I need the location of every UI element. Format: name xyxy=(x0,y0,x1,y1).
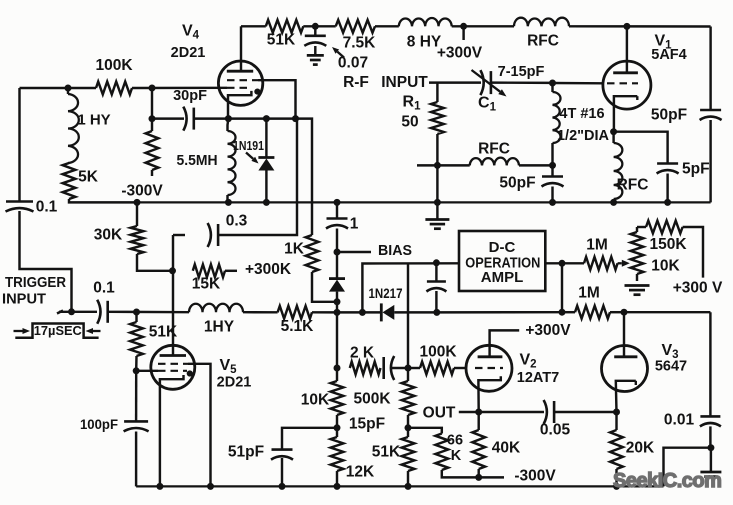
tube V5 grid1 lead right xyxy=(188,364,211,487)
capacitor 100pF top lead xyxy=(135,371,138,422)
svg-text:INPUT: INPUT xyxy=(381,74,428,91)
wire OUT line xyxy=(459,411,544,413)
capacitor (DC amp input) xyxy=(427,280,446,283)
wire to 1M bottom xyxy=(562,311,575,313)
svg-text:10K: 10K xyxy=(301,392,330,409)
svg-text:-300V: -300V xyxy=(121,183,163,200)
junction -300V node (40K/66K) xyxy=(475,474,482,481)
ground below 0.07 xyxy=(307,54,324,57)
junction 100K left node xyxy=(405,365,412,372)
svg-text:5pF: 5pF xyxy=(682,161,710,178)
junction 5.5MH bottom on bus xyxy=(225,199,232,206)
svg-text:50pF: 50pF xyxy=(499,175,535,192)
svg-text:1K: 1K xyxy=(284,241,305,258)
capacitor 0.1 (left feedback) xyxy=(6,200,33,203)
wire resistor bottom stub -300V xyxy=(151,170,153,176)
capacitor 0.3 xyxy=(217,224,220,246)
wire -300V stub xyxy=(479,476,504,478)
wire top-left feedback loop left side xyxy=(18,88,20,201)
tube V3 plate bar xyxy=(614,355,637,358)
inductor 5.5MH xyxy=(228,131,236,195)
wire trigger input line 2 xyxy=(59,311,97,313)
wire pot bottom lead xyxy=(636,274,638,281)
tube V2 plate lead to +300V xyxy=(490,330,520,356)
wire grid node to V1 grid xyxy=(553,82,604,85)
wire 5K bottom to -300V bus xyxy=(69,199,137,202)
capacitor 0.01 xyxy=(700,415,720,418)
junction DC amp input cap bottom xyxy=(433,309,440,316)
svg-text:0.1: 0.1 xyxy=(93,280,115,297)
wire 1M to V3 grid node xyxy=(610,311,624,313)
wire 1K bottom elbow xyxy=(312,272,337,302)
svg-text:7.5K: 7.5K xyxy=(343,35,377,52)
wire 50pF to RF ground bus xyxy=(709,120,711,202)
tube V2 12AT7 envelope xyxy=(466,345,512,391)
wire 51K to grid junction xyxy=(135,356,138,371)
svg-text:5AF4: 5AF4 xyxy=(651,47,686,63)
resistor 30K xyxy=(131,226,144,254)
svg-text:AMPL: AMPL xyxy=(481,269,524,286)
svg-text:100K: 100K xyxy=(419,344,457,361)
wire V5 grid node to 51K xyxy=(135,312,137,322)
svg-text:5.1K: 5.1K xyxy=(281,318,315,335)
svg-text:100K: 100K xyxy=(95,57,133,74)
resistor 2K xyxy=(350,362,381,375)
capacitor DC amp input bottom lead xyxy=(435,291,437,312)
junction DC amp output node xyxy=(559,260,566,267)
wire bias node to 2K junction xyxy=(336,312,338,368)
tube V3 cathode bar and drop xyxy=(616,381,636,412)
junction 51pF bottom on bus xyxy=(279,483,286,490)
junction R1 / RFC row xyxy=(434,162,441,169)
tube V5 plate bar xyxy=(160,354,186,357)
tube V1 plate bar xyxy=(613,71,638,74)
tube V3 5647 envelope xyxy=(602,346,648,392)
wire cap to 100K node xyxy=(391,367,408,369)
junction 1N191 top row xyxy=(263,115,270,122)
wire grid bus top-left xyxy=(20,87,97,89)
junction 0.01 bottom node xyxy=(707,444,714,451)
wire OUT node to 40K xyxy=(477,412,479,430)
svg-text:1 HY: 1 HY xyxy=(77,112,110,129)
inductor 4T bottom lead xyxy=(551,143,553,165)
svg-text:500K: 500K xyxy=(353,391,391,408)
svg-text:5647: 5647 xyxy=(655,359,687,375)
svg-text:0.05: 0.05 xyxy=(540,422,571,439)
svg-text:51K: 51K xyxy=(372,444,401,461)
arrow left pulse width xyxy=(14,330,23,332)
wire 0.3 cap right to grid column xyxy=(218,119,297,235)
wire 1N217 bypass loop xyxy=(362,263,459,312)
capacitor 5pF xyxy=(657,162,678,165)
junction trigger corner xyxy=(68,308,75,315)
wire V3 cathode node to 20K xyxy=(615,412,617,430)
svg-text:-300V: -300V xyxy=(514,468,556,485)
arrow pointing to 1N191 xyxy=(246,153,253,159)
ground below pot xyxy=(625,284,650,287)
svg-text:50pF: 50pF xyxy=(651,107,687,124)
wire 66K bottom to -300V line xyxy=(442,470,479,477)
wire bias bus to 1M node xyxy=(437,311,562,314)
tube V1 plate lead xyxy=(626,26,628,72)
tube V5 grid1 dashes xyxy=(158,363,188,365)
wire 10K to 15pF node xyxy=(336,415,338,428)
wire R1 top lead xyxy=(436,83,438,102)
wire 15pF node to 66K top xyxy=(408,428,442,434)
wire right edge down to 50pF xyxy=(709,27,711,111)
junction V2 cathode OUT node xyxy=(475,409,482,416)
resistor 5.1K xyxy=(278,306,312,319)
junction V5 grid node xyxy=(133,309,140,316)
svg-text:15K: 15K xyxy=(192,276,221,293)
wire 8HY to RFC xyxy=(452,25,514,27)
inductor 4T #16 coil xyxy=(553,92,561,143)
wire 1 cap to BIAS node xyxy=(336,229,338,279)
junction 2K node xyxy=(334,365,341,372)
junction 1N191 bottom on bus xyxy=(263,199,270,206)
wire 5.1K to bias node xyxy=(312,311,337,314)
tube V5 cathode xyxy=(160,375,184,486)
svg-text:30pF: 30pF xyxy=(173,88,207,104)
svg-text:+300V: +300V xyxy=(437,45,483,62)
wire pot top to 150K xyxy=(637,226,646,228)
wire ground stub bottom right xyxy=(710,448,712,472)
tube V5 gas dot xyxy=(187,370,193,376)
wire 0.05 to V3 cathode node xyxy=(554,411,616,413)
svg-text:1M: 1M xyxy=(578,285,600,302)
inductor 5.5MH top lead xyxy=(226,119,229,131)
svg-text:RFC: RFC xyxy=(527,33,559,50)
svg-text:30K: 30K xyxy=(94,227,123,244)
resistor 51K (V5 grid) xyxy=(130,322,143,356)
svg-text:40K: 40K xyxy=(492,440,521,457)
wire 0.01 node to bottom bus xyxy=(664,448,711,487)
wire 100K to V2 grid xyxy=(454,367,467,369)
capacitor 100pF xyxy=(124,420,148,423)
svg-text:K: K xyxy=(451,448,462,464)
capacitor 50pF top lead xyxy=(551,165,553,176)
wire 12K to bottom bus xyxy=(336,471,338,486)
wire RFC row left stub xyxy=(417,164,437,166)
capacitor DC amp input top lead xyxy=(435,263,437,282)
junction 1M bottom left node xyxy=(559,309,566,316)
capacitor 0.1 (trigger coupling) xyxy=(106,301,109,323)
junction screen row left xyxy=(149,115,156,122)
svg-text:1HY: 1HY xyxy=(204,319,235,336)
junction RF input ground node xyxy=(434,199,441,206)
wire 20K to bottom bus xyxy=(615,469,617,486)
wire V4 screen row xyxy=(151,88,153,119)
svg-text:0.1: 0.1 xyxy=(36,199,58,216)
wire node to 1M xyxy=(562,262,584,264)
wire below 0.1 cap to trigger corner xyxy=(20,211,72,312)
inductor RFC vertical top lead xyxy=(612,132,614,143)
junction 1K elbow node xyxy=(334,298,341,305)
wire DC amp output xyxy=(545,262,562,264)
junction V5 plate / 15K / 30K node xyxy=(169,267,176,274)
capacitor 50pF bottom lead xyxy=(551,187,553,203)
junction RFC vertical bottom xyxy=(610,199,617,206)
inductor 1HY (vertical) xyxy=(68,94,79,163)
wire bias bus to 1N217 xyxy=(337,311,381,313)
wire RFC to V1 plate node xyxy=(569,25,711,28)
svg-text:1N191: 1N191 xyxy=(233,139,264,153)
resistor R1 50 xyxy=(431,102,444,134)
tube V4 cathode xyxy=(228,91,251,119)
wire 2K node to 10K xyxy=(336,368,338,381)
svg-text:D-C: D-C xyxy=(489,239,516,256)
wire bias bus to right edge xyxy=(624,311,710,313)
junction node 1HY top xyxy=(65,85,72,92)
svg-text:66: 66 xyxy=(447,433,463,449)
inductor RFC vertical bottom lead xyxy=(612,199,614,202)
resistor 5K xyxy=(63,163,76,199)
inductor 1HY (horizontal) xyxy=(189,304,243,312)
svg-text:4T #16: 4T #16 xyxy=(559,106,604,122)
junction DC amp input cap top xyxy=(433,259,440,266)
resistor 15K xyxy=(193,264,225,277)
tube V5 2D21 envelope xyxy=(151,345,195,389)
svg-text:+300K: +300K xyxy=(245,261,292,278)
svg-text:17µSEC: 17µSEC xyxy=(34,324,82,338)
svg-text:RFC: RFC xyxy=(617,177,649,194)
wire trigger input line xyxy=(57,311,63,314)
svg-text:51pF: 51pF xyxy=(228,444,264,461)
junction 12K bottom on bus xyxy=(334,483,341,490)
capacitor 5pF bottom lead xyxy=(666,174,668,203)
junction V1 plate node xyxy=(623,23,630,30)
svg-text:20K: 20K xyxy=(626,440,655,457)
wire 1 cap top lead xyxy=(336,202,338,218)
wire 30K bottom elbow to V5 plate node xyxy=(137,254,173,271)
capacitor 51pF top lead to divider xyxy=(282,428,337,450)
svg-text:12AT7: 12AT7 xyxy=(517,370,559,386)
capacitor 0.01 bottom lead xyxy=(709,426,711,447)
wire 500K to node xyxy=(407,415,409,428)
junction 100K right / V4 grid xyxy=(149,85,156,92)
svg-text:1M: 1M xyxy=(586,237,608,254)
resistor 1K xyxy=(306,235,319,272)
capacitor 50pF (middle) xyxy=(542,175,563,178)
svg-text:BIAS: BIAS xyxy=(378,243,412,259)
wire 0.3 coupling line xyxy=(173,234,185,236)
wire ground stub RF xyxy=(436,202,438,219)
capacitor 51pF bottom lead xyxy=(281,458,283,486)
wire -300V horizontal bus xyxy=(137,201,711,203)
wire 100K node to 500K xyxy=(407,368,409,381)
arrow through C1 (variable) xyxy=(472,70,501,92)
resistor 7.5K xyxy=(336,20,375,33)
junction 1N217 loop left xyxy=(359,309,366,316)
wire DC column vertical xyxy=(407,263,409,368)
tube V1 cathode bar and drop xyxy=(614,96,637,132)
wire BIAS stub xyxy=(337,251,371,253)
junction cathode V4 row xyxy=(225,115,232,122)
wire 150K to +300V xyxy=(683,227,703,278)
resistor 150K xyxy=(646,221,683,234)
resistor 51K (lower) xyxy=(402,437,415,471)
wire +300V stub xyxy=(462,26,464,40)
svg-text:51K: 51K xyxy=(149,324,178,341)
arrow right pulse width xyxy=(93,330,101,332)
capacitor 0.07 to ground stub xyxy=(314,46,316,55)
tube V4 plate lead xyxy=(240,26,242,71)
tube V4 plate bar xyxy=(227,70,253,73)
inductor RFC (middle) xyxy=(470,158,519,166)
resistor 100K xyxy=(96,82,132,95)
wire 0.3 cap left corner down V5 plate column xyxy=(172,235,174,356)
junction V3 cathode node xyxy=(613,409,620,416)
wire bus to 30K xyxy=(136,202,138,226)
diode 1N191 top lead xyxy=(265,119,267,158)
wire 1HY to 5.1K xyxy=(243,311,278,314)
resistor 66K xyxy=(435,434,448,471)
wire output node vertical xyxy=(561,263,563,312)
junction V1 grid node xyxy=(549,80,556,87)
ground RF input xyxy=(425,218,449,221)
inductor RFC (vertical) xyxy=(614,143,623,199)
capacitor 100pF bottom lead xyxy=(135,432,137,487)
resistor 20K xyxy=(610,430,623,469)
junction 15pF node left xyxy=(334,424,341,431)
capacitor 0.05 xyxy=(553,401,556,423)
wire 51K lower to bottom bus xyxy=(407,471,409,486)
capacitor (2K coupling) xyxy=(382,357,385,379)
svg-text:R-F: R-F xyxy=(343,74,369,91)
tube V4 grid1 lead right xyxy=(258,80,296,118)
svg-text:OUT: OUT xyxy=(423,405,456,422)
capacitor 0.07 xyxy=(305,34,326,37)
svg-text:2D21: 2D21 xyxy=(171,45,206,61)
junction V1 cathode node xyxy=(610,128,617,135)
junction bias bus node xyxy=(334,309,341,316)
wire grid junction into V5 xyxy=(136,370,158,372)
wire 51K to node xyxy=(303,25,335,27)
svg-text:12K: 12K xyxy=(346,464,375,481)
junction V5 grid1 on bottom bus xyxy=(207,483,214,490)
capacitor 30pF xyxy=(193,108,196,130)
tube V1 cathode xyxy=(636,96,638,100)
wire right edge to 0.01 xyxy=(709,312,711,416)
tube V2 cathode xyxy=(478,376,500,412)
tube V2 grid dashes xyxy=(475,367,503,369)
svg-text:2 K: 2 K xyxy=(350,345,375,362)
junction V5 grid / 100pF xyxy=(133,367,140,374)
wire 40K to -300V node xyxy=(477,469,479,477)
capacitor C1 7-15pF variable xyxy=(490,71,493,94)
svg-text:0.01: 0.01 xyxy=(664,412,695,429)
svg-text:100pF: 100pF xyxy=(80,416,118,432)
resistor 12K xyxy=(331,437,344,471)
tube V3 cathode xyxy=(635,381,637,385)
junction V3 grid node xyxy=(621,309,628,316)
junction V5 cathode on bottom bus xyxy=(156,483,163,490)
inductor 8 HY xyxy=(399,18,452,26)
capacitor 1 xyxy=(327,217,348,220)
wire C1 to V1 grid node xyxy=(491,81,553,84)
junction BIAS node xyxy=(334,249,341,256)
tube V2 plate bar xyxy=(478,355,503,358)
junction 0.07 top node xyxy=(312,23,319,30)
diode bias bottom lead xyxy=(336,292,338,313)
wire 1HY top lead xyxy=(67,88,69,94)
svg-text:7-15pF: 7-15pF xyxy=(498,64,545,80)
wire bottom ground bus xyxy=(136,485,663,487)
wire 30pF right along row xyxy=(194,119,312,235)
pulse waveform 17 microsec xyxy=(15,324,98,338)
wire 15K to +300K stub xyxy=(225,270,237,272)
junction 4T coil / 50pF node xyxy=(549,162,556,169)
tube V3 top lead xyxy=(623,312,625,357)
svg-text:INPUT: INPUT xyxy=(2,291,46,308)
tube V1 grid dashes xyxy=(607,82,638,84)
svg-text:TRIGGER: TRIGGER xyxy=(5,274,66,291)
svg-text:50: 50 xyxy=(401,114,418,131)
block D-C OPERATION AMPL xyxy=(459,231,545,291)
resistor 100K (V2 grid) xyxy=(420,362,454,375)
tube V5 grid2 dashes xyxy=(158,370,187,372)
capacitor 51pF xyxy=(272,448,293,451)
inductor 5.5MH bottom lead xyxy=(226,195,228,202)
wire 1N217 to DC amp column xyxy=(394,311,437,313)
inductor 4T top lead xyxy=(551,83,553,92)
capacitor 50pF (right) xyxy=(700,109,721,112)
diode 1N217 xyxy=(380,303,383,321)
resistor 10K potentiometer xyxy=(631,232,644,274)
resistor 51K (V4 plate) xyxy=(266,20,304,33)
resistor 1M (top) xyxy=(584,257,618,270)
resistor 40K xyxy=(472,430,485,469)
wire screen row to 30pF xyxy=(152,117,184,119)
svg-text:1/2"DIA: 1/2"DIA xyxy=(557,128,610,144)
diode 1N191 xyxy=(258,156,274,159)
junction 30K top on bus xyxy=(134,199,141,206)
svg-text:2D21: 2D21 xyxy=(217,375,252,391)
svg-text:10K: 10K xyxy=(651,258,680,275)
junction 20K bottom on bus xyxy=(613,483,620,490)
tube V4 grid 2 dashes xyxy=(227,87,252,89)
arrow potentiometer wiper xyxy=(618,262,622,264)
tube V4 grid 1 dashes xyxy=(227,79,258,81)
wire V4 plate to 51K xyxy=(241,25,266,27)
svg-text:5K: 5K xyxy=(78,169,99,186)
wire resistor top lead xyxy=(151,119,153,131)
svg-text:0.3: 0.3 xyxy=(226,213,248,230)
wire RFC to 50pF node xyxy=(519,164,553,166)
wire RFC row xyxy=(437,164,469,166)
svg-text:+300 V: +300 V xyxy=(673,280,723,297)
svg-text:RFC: RFC xyxy=(478,141,510,158)
svg-text:15pF: 15pF xyxy=(349,416,385,433)
wire node to 51K lower xyxy=(407,428,409,437)
tube V4 gas dot xyxy=(254,89,260,95)
junction V4 grid2 row xyxy=(292,115,299,122)
tube V4 2D21 envelope xyxy=(218,61,262,105)
junction 50pF bottom on bus xyxy=(549,199,556,206)
junction +300V node xyxy=(460,23,467,30)
wire pot top lead xyxy=(636,227,638,232)
wire 100K to V4 grid xyxy=(132,87,227,90)
junction 1 cap top on bus xyxy=(334,199,341,206)
svg-text:1: 1 xyxy=(350,216,359,233)
resistor 500K xyxy=(402,381,415,415)
wire cathode to 5pF xyxy=(614,132,668,164)
svg-text:1N217: 1N217 xyxy=(369,286,403,301)
svg-text:5.5MH: 5.5MH xyxy=(177,153,218,169)
svg-text:150K: 150K xyxy=(649,236,687,253)
resistor 10K (divider) xyxy=(331,381,344,415)
svg-text:SeekIC.com: SeekIC.com xyxy=(613,470,721,492)
